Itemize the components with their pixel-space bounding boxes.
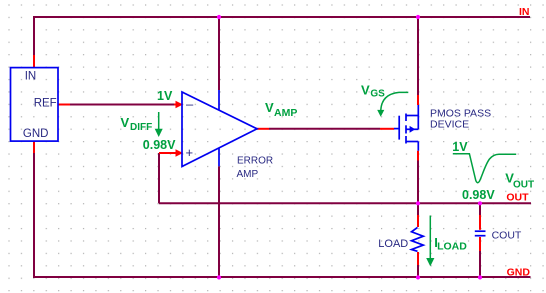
svg-text:OUT: OUT	[513, 180, 534, 191]
svg-text:LOAD: LOAD	[378, 238, 408, 250]
svg-text:V: V	[265, 100, 274, 115]
svg-text:0.98V: 0.98V	[143, 138, 176, 152]
svg-text:GS: GS	[370, 89, 385, 100]
svg-text:V: V	[361, 83, 370, 98]
svg-text:1V: 1V	[157, 89, 173, 103]
svg-text:OUT: OUT	[506, 192, 529, 204]
svg-text:–: –	[186, 97, 194, 112]
svg-text:GND: GND	[23, 128, 49, 140]
svg-text:DIFF: DIFF	[130, 122, 152, 133]
svg-text:GND: GND	[507, 267, 531, 279]
svg-text:V: V	[121, 115, 130, 130]
svg-text:DEVICE: DEVICE	[430, 119, 469, 131]
svg-text:AMP: AMP	[274, 107, 297, 119]
svg-text:AMP: AMP	[237, 169, 259, 180]
svg-text:0.98V: 0.98V	[462, 188, 495, 202]
svg-text:REF: REF	[34, 98, 57, 110]
svg-text:LOAD: LOAD	[437, 240, 467, 252]
svg-text:ERROR: ERROR	[237, 156, 273, 167]
svg-text:IN: IN	[25, 71, 37, 83]
svg-text:COUT: COUT	[492, 230, 522, 242]
svg-text:1V: 1V	[452, 140, 468, 154]
svg-text:+: +	[186, 145, 194, 160]
svg-text:IN: IN	[519, 6, 530, 18]
